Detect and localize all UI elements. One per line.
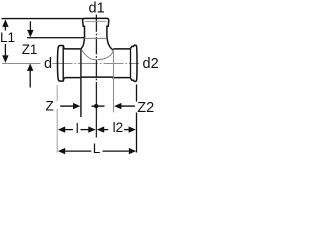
arrowhead Z1 up to axis [27, 63, 33, 71]
dimension line l2 right segment [124, 129, 129, 131]
centerline: main run axis, right segment [53, 63, 140, 65]
extension line: right end face for l2 and L, lower segment [136, 113, 138, 153]
centerline: branch axis, dash-dot upper part [95, 15, 97, 92]
dimension line L1 lower segment [4, 44, 6, 58]
dimension line Z1 lower tail [29, 69, 31, 87]
left collar inner groove line [62, 46, 64, 81]
centerline: branch axis, solid lower extension [95, 91, 97, 138]
dimension Z [46, 98, 105, 113]
arrowhead Z right to stop line [73, 103, 80, 109]
extension line: branch end plane (top) [2, 18, 83, 20]
main tube bottom wall [81, 76, 131, 79]
dimension line L left segment [64, 150, 91, 152]
svg-text:Z: Z [46, 98, 54, 113]
svg-text:L: L [93, 141, 101, 156]
extension line: branch socket stop, extended left for Z1 [27, 37, 85, 39]
arrowhead Z1 down to stop line [27, 30, 33, 38]
dimension line through axis dot [92, 105, 105, 107]
dimension Z1 [22, 21, 38, 87]
left socket: press collar outline with end face [58, 46, 66, 82]
right crotch fillet [107, 37, 114, 51]
axis termination dot [94, 104, 98, 108]
branch socket: side walls [85, 26, 107, 37]
arrowhead L1 top (up) [2, 19, 8, 27]
arrowhead l right [88, 126, 95, 132]
svg-text:d: d [44, 56, 52, 72]
arrowhead L left [58, 148, 65, 154]
branch socket stop bead [85, 37, 107, 39]
dimension line Z tail [60, 105, 73, 107]
dimension line l2 left segment [103, 129, 108, 131]
dimension line L right segment [103, 150, 129, 152]
dimension line L1 upper segment [4, 26, 6, 31]
right socket: tube top wall and press collar outline [113, 45, 137, 81]
right collar seam line [130, 49, 132, 78]
centerline: main run axis, left segment [2, 63, 41, 65]
arrowhead l2 right [129, 126, 136, 132]
left socket: top and bottom walls [65, 49, 81, 78]
extension line: left end face for l and L, upper segment [56, 85, 58, 101]
branch socket: press collar outline [83, 18, 109, 26]
dimension line Z1 upper tail [29, 21, 31, 31]
dimension line Z2 tail [120, 105, 135, 107]
svg-text:l: l [76, 121, 79, 136]
svg-text:Z1: Z1 [22, 42, 38, 57]
left crotch fillet [81, 37, 85, 49]
branch collar inner end line [85, 20, 107, 22]
dimension l [58, 121, 96, 136]
crotch saddle curve [81, 49, 113, 60]
dimension line l left segment [64, 129, 73, 131]
svg-text:L1: L1 [0, 30, 15, 45]
extension line: right end face for l2 and L, upper segment [136, 85, 138, 102]
dimension L1 [0, 19, 15, 63]
arrowhead Z2 left to stop line [114, 103, 121, 109]
dimension line l right segment [81, 129, 89, 131]
dimension l2 [97, 120, 136, 135]
svg-text:d1: d1 [89, 1, 105, 17]
dimension L [58, 141, 136, 156]
left socket stop bead with extension line down to Z row [80, 49, 82, 117]
svg-text:d2: d2 [143, 56, 159, 72]
right socket stop line with extension down to Z2 row [113, 51, 115, 113]
svg-text:Z2: Z2 [137, 100, 154, 116]
arrowhead l2 left [97, 126, 104, 132]
arrowhead L right [129, 148, 136, 154]
arrowhead l left [58, 126, 65, 132]
svg-text:l2: l2 [113, 120, 124, 135]
dimension Z2 [114, 100, 154, 116]
extension line: left end face for l and L, lower segment [56, 109, 58, 153]
arrowhead L1 bottom (down) [2, 55, 8, 63]
